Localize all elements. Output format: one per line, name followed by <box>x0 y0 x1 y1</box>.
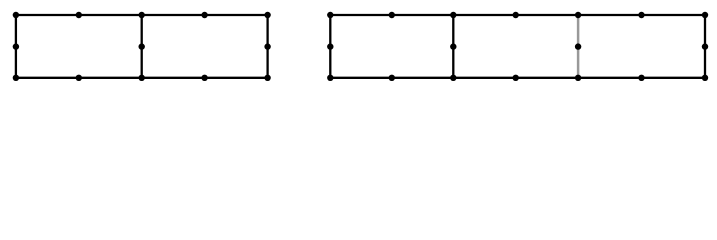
wire: figure 1 left vertical edge <box>15 15 17 78</box>
node: fig2 bottom-left corner <box>327 75 333 81</box>
node: fig1 top edge midpoint of cell 2 <box>201 12 207 18</box>
node: fig2 top edge midpoint of cell 2 <box>513 12 519 18</box>
wire: figure 1 bottom edge <box>16 77 268 79</box>
node: fig2 bottom edge midpoint of cell 3 <box>638 75 644 81</box>
node: fig2 left edge midpoint <box>327 43 333 49</box>
node: fig1 top middle vertex <box>139 12 145 18</box>
node: fig1 top edge midpoint of cell 1 <box>76 12 82 18</box>
wire: figure 1 top edge <box>16 14 268 16</box>
wire: figure 1 middle vertical edge <box>141 15 143 78</box>
node: fig1 bottom edge midpoint of cell 2 <box>201 75 207 81</box>
node: fig2 top-right corner <box>702 12 708 18</box>
node: fig2 bottom edge midpoint of cell 1 <box>389 75 395 81</box>
wire: figure 1 right vertical edge <box>266 15 268 78</box>
wire: figure 2 first interior vertical edge <box>452 15 454 78</box>
node: fig1 bottom edge midpoint of cell 1 <box>76 75 82 81</box>
node: fig2 bottom edge midpoint of cell 2 <box>513 75 519 81</box>
figure 1: 1x2 grid of cells <box>16 15 268 78</box>
node: fig2 top edge midpoint of cell 3 <box>638 12 644 18</box>
node: fig1 top-right corner <box>264 12 270 18</box>
figure 2: 1x3 grid of cells <box>330 15 705 78</box>
node: fig2 first interior edge midpoint <box>450 43 456 49</box>
node: fig1 bottom middle vertex <box>139 75 145 81</box>
node: fig2 right edge midpoint <box>702 43 708 49</box>
node: fig2 top vertex of second interior edge <box>575 12 581 18</box>
node: fig1 right edge midpoint <box>264 43 270 49</box>
node: fig2 bottom vertex of first interior edge <box>450 75 456 81</box>
node: fig1 bottom-right corner <box>264 75 270 81</box>
node: fig1 top-left corner <box>13 12 19 18</box>
node: fig2 second interior edge midpoint <box>575 43 581 49</box>
wire: figure 2 left vertical edge <box>329 15 331 78</box>
node: fig2 top vertex of first interior edge <box>450 12 456 18</box>
node: fig1 left edge midpoint <box>13 43 19 49</box>
node: fig1 bottom-left corner <box>13 75 19 81</box>
wire: figure 2 second interior vertical edge (gray) <box>577 15 580 78</box>
node: fig2 top-left corner <box>327 12 333 18</box>
wire: figure 2 right vertical edge <box>704 15 706 78</box>
node: fig2 bottom vertex of second interior edge <box>575 75 581 81</box>
wire: figure 2 top edge <box>330 14 705 16</box>
node: fig2 top edge midpoint of cell 1 <box>389 12 395 18</box>
node: fig2 bottom-right corner <box>702 75 708 81</box>
wire: figure 2 bottom edge <box>330 77 705 79</box>
node: fig1 middle edge midpoint <box>139 43 145 49</box>
